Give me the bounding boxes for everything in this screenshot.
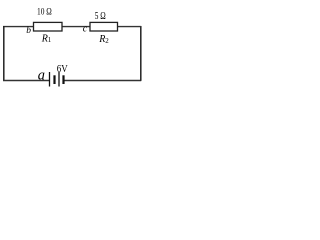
- battery cell 2 long plate: [58, 72, 60, 87]
- svg-text:5 Ω: 5 Ω: [95, 10, 106, 22]
- resistor R2 (box): [90, 22, 118, 31]
- svg-text:b: b: [26, 26, 31, 36]
- battery cell 1 long plate: [49, 72, 51, 87]
- wire top-middle segment (R1 to R2): [62, 26, 91, 28]
- svg-text:2: 2: [105, 37, 109, 45]
- wire right vertical: [140, 26, 142, 81]
- svg-text:10 Ω: 10 Ω: [37, 7, 52, 17]
- wire top-left segment (left corner to R1): [3, 26, 34, 28]
- svg-text:c: c: [83, 24, 88, 35]
- wire left vertical: [3, 26, 5, 81]
- wire bottom-left segment (corner to battery): [3, 80, 50, 82]
- battery cell 1 short thick plate: [53, 75, 55, 84]
- wire top-right segment (R2 to right corner): [117, 26, 141, 28]
- resistor R1 (box): [34, 22, 63, 31]
- svg-text:6V: 6V: [57, 64, 68, 75]
- wire bottom-right segment (battery to right corner): [64, 80, 142, 82]
- svg-text:a: a: [38, 68, 45, 84]
- svg-text:1: 1: [48, 36, 52, 44]
- battery cell 2 short thick plate: [62, 75, 64, 84]
